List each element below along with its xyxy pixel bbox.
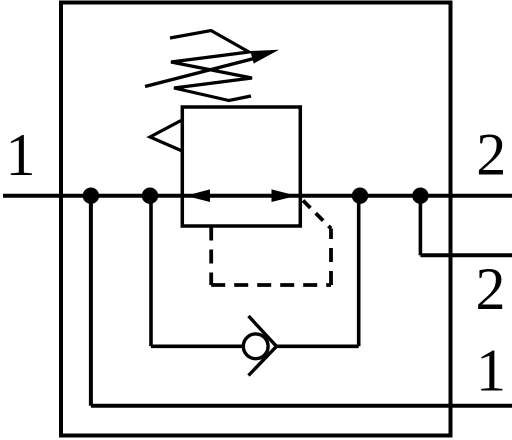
junction dot C: [352, 188, 368, 204]
wire: bypass left vertical from dot B: [149, 196, 153, 347]
pilot line dashed left vertical: [209, 227, 213, 286]
spring (adjustment): [170, 31, 252, 101]
wire: drain port 1 bottom horizontal: [91, 404, 512, 408]
wire: main flow line port 1 to port 2: [3, 194, 512, 198]
adjustment arrow shaft: [145, 58, 258, 87]
regulator box U1: [182, 107, 300, 226]
valve body outline: [61, 3, 451, 436]
check valve ball: [243, 334, 268, 359]
svg-text:1: 1: [476, 338, 506, 404]
pilot line dashed right vertical: [329, 229, 333, 286]
wire: drain branch vertical from dot A: [89, 196, 93, 406]
svg-text:2: 2: [476, 122, 506, 188]
flow arrowhead left: [186, 189, 211, 202]
wire: bypass bottom left horizontal: [151, 344, 243, 348]
pilot line dashed diagonal: [303, 201, 331, 229]
check valve seat: [249, 316, 277, 376]
adjustment arrow head: [250, 50, 279, 64]
spring seat lever: [150, 121, 181, 151]
junction dot D: [412, 188, 428, 204]
svg-text:1: 1: [6, 122, 36, 188]
wire: bypass bottom right horizontal: [277, 344, 359, 348]
junction dot B: [142, 188, 158, 204]
flow arrowhead right: [272, 189, 297, 202]
wire: port 2 lower horizontal: [420, 253, 512, 257]
svg-text:2: 2: [476, 256, 506, 322]
junction dot A: [83, 188, 99, 204]
wire: port 2 branch vertical from dot D: [419, 196, 423, 256]
pilot line dashed bottom horizontal: [211, 283, 331, 287]
wire: bypass right vertical from dot C: [357, 196, 361, 347]
